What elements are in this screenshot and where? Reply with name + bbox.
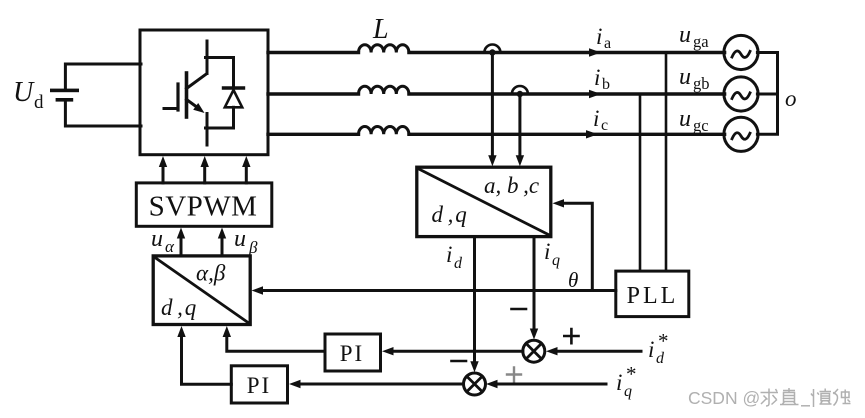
label u_beta	[234, 226, 258, 257]
svg-text:u: u	[679, 22, 691, 48]
arrow i_c (current direction)	[586, 130, 598, 138]
svg-text:a, b ,c: a, b ,c	[484, 173, 539, 198]
svg-text:i: i	[593, 106, 599, 131]
svg-text:i: i	[594, 65, 600, 90]
svg-text:o: o	[785, 86, 797, 111]
block: alpha-beta to d-q transform U2	[153, 256, 250, 325]
svg-text:gb: gb	[693, 74, 710, 93]
block: abc to dq transform U3	[417, 167, 551, 236]
inductor L (phase c)	[359, 126, 409, 134]
svg-text:b: b	[602, 76, 610, 93]
svg-text:d , q: d , q	[161, 295, 196, 320]
svg-text:U: U	[13, 77, 35, 108]
svg-text:SVPWM: SVPWM	[149, 191, 258, 223]
svg-text:i: i	[616, 370, 622, 395]
svg-text:β: β	[248, 238, 258, 257]
svg-text:i: i	[446, 242, 452, 267]
arrow i_a (current direction)	[589, 48, 601, 56]
diode D1 (freewheel)	[206, 58, 244, 146]
wire: u_alpha to SVPWM	[177, 228, 185, 257]
wire: phase a line	[268, 51, 725, 54]
label minus at S2	[452, 360, 467, 363]
label u_ga	[679, 22, 709, 51]
wire: S2 output to PI2	[289, 380, 464, 388]
wire: current sense b drop to abc/dq	[516, 94, 524, 166]
svg-text:a: a	[604, 35, 611, 52]
transistor Q1 (IGBT)	[164, 41, 207, 128]
svg-text:d: d	[454, 255, 463, 272]
label u_alpha	[151, 226, 175, 256]
label plus at S2	[507, 368, 521, 382]
wire: u_beta to SVPWM	[218, 228, 226, 257]
label i_d	[446, 242, 463, 272]
wire: PWM gate signal b	[201, 156, 209, 183]
summing junction S2 (i_d error)	[464, 373, 486, 395]
wire: neutral bus	[757, 53, 777, 135]
label minus at S1	[512, 308, 527, 311]
svg-text:i: i	[648, 337, 654, 362]
label u_gc	[679, 106, 709, 135]
svg-text:ga: ga	[693, 32, 709, 51]
wire: current sense a drop to abc/dq	[488, 53, 496, 167]
svg-text:d , q: d , q	[432, 202, 467, 227]
wire: phase c line	[268, 133, 725, 136]
wire: PWM gate signal a	[159, 156, 167, 183]
wire: voltage sense phase b to PLL	[639, 94, 642, 271]
wire: phase b line	[268, 92, 725, 95]
wire: DC bus top	[65, 64, 141, 89]
svg-text:u: u	[151, 226, 163, 252]
wire: voltage sense phase a to PLL	[665, 53, 668, 272]
summing junction S1 (i_q error)	[523, 340, 545, 362]
svg-text:*: *	[658, 329, 669, 353]
label i_c	[593, 106, 608, 134]
label i_q*	[616, 362, 637, 400]
AC source u_gb	[724, 77, 758, 111]
arrow i_b (current direction)	[589, 90, 601, 98]
svg-text:PI: PI	[340, 341, 364, 366]
svg-text:PLL: PLL	[627, 283, 679, 309]
svg-text:u: u	[234, 226, 246, 252]
svg-text:θ: θ	[568, 268, 578, 292]
wire: i_q from abc/dq to summing junction S1	[530, 237, 538, 340]
wire: DC bus bottom	[65, 102, 141, 126]
svg-text:gc: gc	[693, 116, 709, 135]
inverter U1 box	[140, 30, 268, 155]
AC source u_gc	[724, 117, 758, 151]
svg-text:α: α	[165, 237, 175, 256]
svg-text:c: c	[601, 117, 608, 134]
svg-text:d: d	[34, 92, 44, 113]
label i_q	[544, 239, 560, 269]
svg-text:i: i	[544, 239, 550, 264]
capacitor C (DC link)	[50, 89, 79, 102]
svg-text:q: q	[552, 252, 560, 269]
label i_a	[596, 24, 611, 52]
svg-text:u: u	[679, 106, 691, 132]
wire: i_q* reference into S2	[486, 380, 606, 388]
wire: PI2 output to alpha-beta/dq	[177, 326, 231, 384]
wire: PI1 output to alpha-beta/dq	[223, 326, 325, 351]
inductor L (phase a)	[359, 45, 409, 53]
wire: i_d* reference into S1	[546, 347, 641, 355]
wire: PWM gate signal c	[242, 156, 250, 183]
wire: i_d from abc/dq to summing junction S2	[470, 237, 478, 373]
label U_d	[13, 77, 44, 113]
svg-text:u: u	[679, 64, 691, 90]
svg-text:i: i	[596, 24, 602, 49]
PLL block	[616, 271, 689, 317]
label plus at S1	[564, 329, 578, 343]
AC source u_ga	[724, 35, 758, 69]
svg-text:*: *	[626, 362, 637, 386]
label i_b	[594, 65, 610, 93]
PI block 1 (q axis)	[325, 334, 381, 371]
label u_gb	[679, 64, 710, 93]
svg-text:L: L	[372, 14, 389, 45]
svg-text:α,β: α,β	[196, 261, 226, 286]
watermark CSDN	[688, 388, 851, 408]
svg-text:CSDN @: CSDN @	[688, 388, 760, 408]
current sensor tap a	[484, 45, 500, 56]
svg-text:PI: PI	[247, 373, 271, 398]
SVPWM block	[136, 183, 271, 226]
current sensor tap b	[512, 86, 528, 97]
wire: theta from PLL to alpha-beta/dq block	[252, 286, 616, 294]
inductor L (phase b)	[359, 86, 409, 94]
PI block 2 (d axis)	[231, 366, 287, 403]
wire: theta branch to abc/dq block	[553, 199, 593, 290]
wire: S1 output to PI1	[382, 347, 523, 355]
label i_d*	[648, 329, 669, 367]
